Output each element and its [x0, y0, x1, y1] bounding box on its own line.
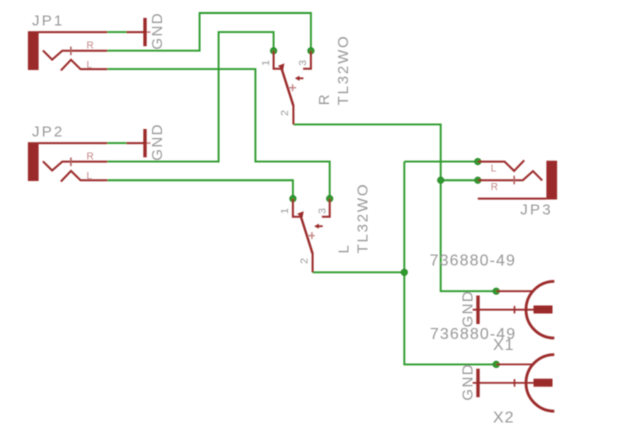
- svg-text:3: 3: [297, 60, 309, 66]
- svg-text:L: L: [491, 164, 497, 175]
- ground symbol GND at JP1: [127, 12, 166, 50]
- svg-text:GND: GND: [149, 12, 166, 50]
- junction dot R-out branch: [438, 177, 444, 183]
- svg-text:2: 2: [298, 258, 310, 264]
- junction dot JP3 R: [475, 177, 481, 183]
- svg-text:3: 3: [317, 208, 329, 214]
- connector JP3: [478, 160, 557, 199]
- wire net L-out: JP3 L down to X2: [404, 162, 496, 365]
- connector JP2: [28, 142, 107, 181]
- ground symbol GND at X2: [460, 363, 479, 401]
- svg-text:JP1: JP1: [32, 13, 64, 30]
- junction dot JP3 L: [475, 158, 481, 164]
- svg-text:1: 1: [260, 60, 272, 66]
- ground symbol GND at JP2: [127, 123, 166, 161]
- svg-text:R: R: [316, 94, 333, 106]
- svg-text:GND: GND: [460, 290, 477, 328]
- svg-text:L: L: [87, 171, 93, 182]
- svg-text:TL32WO: TL32WO: [335, 34, 352, 105]
- switch L arrow: [314, 224, 323, 229]
- svg-text:R: R: [87, 40, 94, 51]
- wire net JP1-GND to ground: [107, 31, 126, 33]
- connector X2 736880-49: [473, 355, 555, 412]
- svg-text:GND: GND: [460, 363, 477, 401]
- switch L TL32WO: [293, 199, 330, 273]
- junction dot switch L pin3: [327, 195, 333, 201]
- junction dot L-out branch: [401, 269, 407, 275]
- junction dot X1 pin: [493, 288, 499, 294]
- wire branch R-out to JP3 R: [441, 179, 478, 181]
- svg-text:L: L: [87, 60, 93, 71]
- pin tick JP2 R: [70, 158, 72, 167]
- wire switch L pin2 to L-out: [313, 271, 405, 273]
- svg-text:JP3: JP3: [520, 202, 552, 219]
- svg-text:TL32WO: TL32WO: [355, 183, 372, 254]
- connector JP1: [28, 31, 107, 70]
- pin tick JP3 R: [513, 176, 515, 185]
- svg-text:1: 1: [279, 208, 291, 214]
- svg-text:GND: GND: [149, 123, 166, 161]
- switch R TL32WO: [274, 51, 311, 125]
- wire branch JP3-L horizontal: [404, 161, 478, 163]
- switch L blade barb: [297, 211, 304, 218]
- pin tick JP1 R: [70, 47, 72, 56]
- wire net JP2-GND to ground: [107, 142, 126, 144]
- junction dot X2 pin: [493, 361, 499, 367]
- wire net JP1-R to switch R pin3: [107, 13, 311, 51]
- svg-text:2: 2: [279, 110, 291, 116]
- junction dot switch R pin3: [308, 48, 314, 54]
- switch R blade barb: [278, 63, 285, 70]
- junction dot switch R pin1: [270, 48, 276, 54]
- wire net JP2-R to switch R pin1: [107, 32, 273, 162]
- svg-text:R: R: [87, 151, 94, 162]
- wire net JP2-L to switch L pin1: [107, 180, 293, 198]
- connector X1 736880-49: [473, 281, 555, 338]
- wire net JP1-L to switch L pin3: [107, 69, 329, 199]
- svg-text:736880-49: 736880-49: [430, 253, 516, 270]
- wire net R-out: switch R pin2 to X1: [293, 124, 496, 291]
- pin tick X1 gnd: [514, 306, 516, 314]
- switch L pivot cross: [308, 232, 315, 239]
- svg-text:JP2: JP2: [32, 124, 64, 141]
- switch R pivot cross: [289, 84, 296, 91]
- switch R arrow: [295, 76, 304, 81]
- junction dot switch L pin1: [290, 195, 296, 201]
- svg-text:X2: X2: [493, 410, 515, 427]
- pin tick X2 gnd: [514, 379, 516, 387]
- svg-text:R: R: [491, 182, 498, 193]
- svg-text:L: L: [335, 244, 352, 253]
- svg-text:736880-49: 736880-49: [430, 326, 516, 343]
- ground symbol GND at X1: [460, 290, 479, 328]
